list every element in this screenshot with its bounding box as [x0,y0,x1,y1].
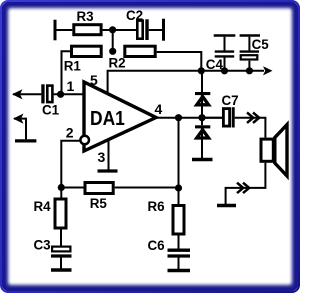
diode ground bar [192,158,213,161]
node C1-pin1 junction [57,91,64,98]
C5 top T-bar [240,34,260,37]
resistor R5 [85,183,113,194]
wire terminal to R3 [57,29,73,31]
wire C2 to right terminal [149,29,162,31]
wire output node to VD2 [201,118,203,126]
wire VD2 to ground [201,140,203,159]
svg-text:C2: C2 [126,8,143,23]
speaker ground bar [217,204,236,207]
wire C3 to ground [60,258,62,270]
wire R3 to C2 [103,29,137,31]
resistor R1 [72,46,102,56]
wire R4 to C3 [60,230,62,246]
wire R1 left to pin1 column [62,51,71,94]
wire output node down to feedback node [178,118,180,188]
node R3-C2 junction [109,26,116,33]
diode VD1 [195,92,210,107]
wire VD1 to output node [201,106,203,117]
input ground bar [15,139,36,142]
C6 ground bar [168,269,191,272]
svg-text:3: 3 [98,149,106,165]
capacitor C2 bar plate [145,19,148,40]
resistor R2 [125,46,155,56]
capacitor C7 bar plate [232,107,235,127]
svg-text:R4: R4 [34,199,52,214]
wire speaker bottom down and left [226,163,266,204]
capacitor C1 bar plate [41,84,44,103]
capacitor C4 plates [215,52,235,57]
wire C4 node down to diode VD1 [201,71,203,92]
speaker driver rectangle [261,139,273,161]
C4 stem up [224,37,226,51]
svg-text:DA1: DA1 [90,108,125,131]
capacitor C2 polarized box plate [137,21,142,39]
svg-text:R3: R3 [77,9,94,24]
svg-text:C4: C4 [206,57,224,72]
node C4 junction [221,67,228,74]
node supply bus junction [198,67,205,74]
resistor R3 [74,25,101,35]
wire C7 left [202,117,222,119]
wire C1 to op-amp pin 1 [54,93,84,95]
op-amp DA1 triangle [84,82,156,151]
node diode mid junction [198,114,205,121]
wire R5 right to feedback node [115,187,179,189]
supply arrow right [263,66,273,75]
capacitor C3 polarized box plate [52,247,70,252]
C5 stem down [248,61,250,71]
wire feedback node down to R4 [60,188,62,198]
pin 2 wire to feedback column [61,141,80,188]
output wire pin 4 [155,117,222,119]
svg-text:1: 1 [67,78,75,94]
input arrow left [12,89,23,99]
wire R2 right to C4 node [157,52,202,71]
C3 ground bar [51,268,72,271]
capacitor C3 bar plate [51,254,72,257]
input ground arrow [13,114,24,124]
resistor R6 [173,206,184,235]
node output junction [175,114,182,121]
terminal bar left of R3 [54,20,57,41]
wire node R3C2 down to R1R2 [112,30,114,51]
svg-text:2: 2 [66,125,74,141]
svg-text:C6: C6 [148,238,165,253]
svg-text:C5: C5 [252,37,270,52]
diode VD2 [195,125,210,140]
speaker horn [275,125,287,176]
capacitor C7 polarized box plate [223,109,229,127]
capacitor C5 polarized box plate [241,55,258,59]
wire C6 to ground [178,258,180,270]
wire C7 to speaker [235,118,266,138]
svg-text:R1: R1 [64,59,82,74]
wire feedback node to R5 left [61,187,83,189]
input ground arrow wire [14,119,26,140]
svg-text:R5: R5 [90,196,108,211]
node R1-R2 junction [109,48,116,55]
supply bus to arrow [201,70,264,72]
C4 stem down [224,58,226,71]
C4 top T-bar [214,34,236,37]
resistor R4 [55,199,66,228]
svg-text:4: 4 [155,101,163,117]
svg-text:R2: R2 [109,56,126,71]
svg-text:C1: C1 [42,103,60,118]
node output-R6 junction [175,184,182,191]
capacitor C6 plates [168,250,191,256]
capacitor C5 top plate [240,50,259,52]
svg-text:5: 5 [90,72,98,88]
pin 5 wire up and bus to C4 node [108,71,202,96]
pin 2 inverting bubble [80,136,89,145]
chevron pair top (to speaker) [247,113,259,123]
svg-text:C3: C3 [34,238,51,253]
node feedback junction R4-R5 [58,184,65,191]
pin 3 ground bar [98,169,118,172]
wire R6 to C6 [178,236,180,249]
pin 3 wire down to ground [108,140,110,170]
chevron pair bottom (speaker return) [237,183,249,193]
wire node to R6 [178,188,180,204]
svg-text:R6: R6 [148,199,165,214]
capacitor C1 polarized box plate [47,86,52,103]
terminal bar right of C2 [162,19,165,41]
C5 stem up [248,37,250,51]
node C5 junction [246,67,253,74]
svg-text:C7: C7 [222,93,239,108]
wire input arrow to C1 [13,93,41,95]
